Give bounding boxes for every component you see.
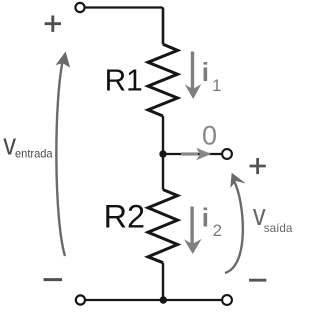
terminal output middle [222, 149, 232, 159]
node middle junction [159, 150, 166, 157]
svg-text:1: 1 [212, 76, 221, 95]
minus output [249, 279, 266, 282]
current arrow i2 [184, 207, 202, 255]
wire bottom rail [86, 299, 223, 301]
wire middle node to output terminal [163, 153, 222, 155]
terminal bottom-left [76, 295, 85, 304]
terminal top-left [75, 3, 84, 12]
plus input [45, 16, 61, 32]
svg-text:i: i [202, 202, 209, 232]
resistor R1 [148, 44, 178, 116]
node bottom junction [160, 296, 167, 303]
wire top from input terminal to R1 top [85, 8, 163, 45]
plus output [250, 158, 266, 174]
wire R2 bottom to bottom rail [162, 263, 164, 300]
arrow v_saida [225, 182, 243, 274]
svg-text:saída: saída [264, 221, 293, 235]
arrow v_entrada [56, 57, 65, 256]
svg-text:2: 2 [213, 221, 222, 240]
wire R1 bottom to R2 top [162, 116, 164, 190]
svg-text:i: i [202, 57, 209, 87]
svg-text:R1: R1 [105, 63, 143, 98]
current arrow i1 [185, 52, 202, 100]
svg-text:R2: R2 [104, 198, 146, 234]
svg-text:entrada: entrada [15, 147, 53, 161]
terminal bottom-right [222, 295, 232, 305]
minus input [44, 278, 63, 281]
resistor R2 [148, 190, 178, 263]
svg-text:0: 0 [202, 121, 217, 151]
arrow zero-current out of node [181, 148, 211, 161]
